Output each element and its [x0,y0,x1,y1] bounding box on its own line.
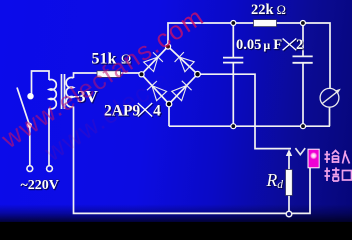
svg-text:22kΩ: 22kΩ [251,2,286,18]
svg-text:Rd: Rd [266,170,284,191]
svg-text:~220V: ~220V [21,178,59,193]
